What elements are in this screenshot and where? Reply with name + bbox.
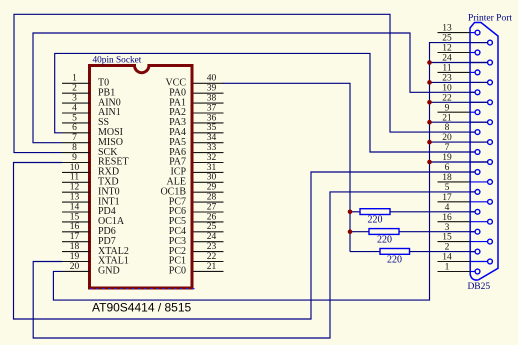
resistor R3 220 ohm (to J1 pin 2) [350, 249, 475, 266]
junction dot: GND bus / J1 pin 23 [427, 80, 432, 85]
svg-text:9: 9 [72, 153, 77, 163]
U1 pin 1 (T0) stub + number + name [62, 74, 109, 89]
IC U1 AT90S4414/8515 body (40-pin DIP outline with notch) [90, 66, 193, 289]
svg-text:29: 29 [207, 183, 217, 193]
U1 pin 12 (INT0) stub + number + name [62, 183, 120, 198]
svg-text:36: 36 [207, 113, 217, 123]
svg-text:13: 13 [70, 193, 80, 203]
U1 pin 20 (GND) stub + number + name [62, 262, 120, 277]
svg-text:12: 12 [442, 44, 452, 54]
svg-text:22: 22 [207, 252, 217, 262]
svg-text:9: 9 [445, 103, 450, 113]
svg-text:40pin Socket: 40pin Socket [93, 55, 142, 65]
U1 pin 7 (MISO) stub + number + name [62, 133, 123, 148]
U1 pin 29 (OC1B) stub + number + name [160, 183, 223, 198]
svg-text:39: 39 [207, 84, 217, 94]
J1 pin 20 (circle, lead, number) [442, 133, 492, 144]
resistor R2 220 ohm (to J1 pin 3) [350, 229, 475, 246]
svg-text:38: 38 [207, 94, 217, 104]
U1 pin 2 (PB1) stub + number + name [62, 84, 115, 99]
U1 pin 33 (PA6) stub + number + name [169, 143, 223, 158]
svg-text:18: 18 [70, 242, 80, 252]
J1 pin 3 (circle, lead, number) [445, 223, 480, 234]
J1 pin 14 (circle, lead, number, stub) [438, 253, 493, 264]
U1 pin 8 (SCK) stub + number + name [62, 143, 118, 158]
U1 pin 16 (PD6) stub + number + name [62, 222, 116, 237]
J1 pin 25 (circle, lead, number) [442, 34, 492, 45]
wire net XTAL1: U1 pin19 -> bottom rail -> J1 pin5 [33, 192, 475, 338]
U1 pin 5 (SS) stub + number + name [62, 113, 109, 128]
dashed blue highlight on chip bottom edge [90, 288, 196, 290]
svg-text:40: 40 [207, 74, 217, 84]
svg-text:14: 14 [70, 202, 80, 212]
svg-text:15: 15 [70, 212, 80, 222]
J1 pin 4 (circle, lead, number) [445, 203, 480, 214]
svg-text:20: 20 [70, 262, 80, 272]
resistor R1 220 ohm (to J1 pin 4) [350, 209, 475, 226]
wire GND bus branch to J1 pin 20 [430, 141, 488, 143]
svg-text:14: 14 [442, 253, 452, 263]
U1 pin 31 (ICP) stub + number + name [170, 163, 223, 178]
U1 pin 24 (PC3) stub + number + name [169, 232, 224, 247]
U1 pin 25 (PC4) stub + number + name [169, 222, 224, 237]
U1 pin 39 (PA0) stub + number + name [169, 84, 223, 99]
wire GND bus branch to J1 pin 22 [430, 101, 488, 103]
U1 pin 17 (PD7) stub + number + name [62, 232, 116, 247]
U1 pin 14 (PD4) stub + number + name [62, 202, 116, 217]
U1 pin 13 (INT1) stub + number + name [62, 193, 120, 208]
J1 pin 13 (circle, lead, number, stub) [438, 24, 480, 35]
U1 pin 10 (RXD) stub + number + name [62, 163, 119, 178]
svg-text:27: 27 [207, 202, 217, 212]
junction dot: GND bus / J1 pin 19 [427, 160, 432, 165]
svg-text:33: 33 [207, 143, 217, 153]
U1 pin 19 (XTAL1) stub + number + name [62, 252, 129, 267]
U1 pin 34 (PA5) stub + number + name [169, 133, 223, 148]
junction dot: GND bus / J1 pin 22 [427, 100, 432, 105]
svg-text:GND: GND [98, 266, 120, 277]
J1 pin 22 (circle, lead, number) [442, 93, 492, 104]
J1 pin 15 (circle, lead, number, stub) [438, 233, 493, 244]
svg-text:37: 37 [207, 103, 217, 113]
U1 pin 9 (RESET) stub + number + name [62, 153, 129, 168]
U1 pin 37 (PA2) stub + number + name [169, 103, 223, 118]
svg-text:26: 26 [207, 212, 217, 222]
svg-text:17: 17 [442, 193, 452, 203]
svg-text:10: 10 [70, 163, 80, 173]
svg-text:19: 19 [70, 252, 80, 262]
svg-text:1: 1 [72, 74, 77, 84]
wire GND bus branch to J1 pin 19 [430, 161, 488, 163]
svg-text:30: 30 [207, 173, 217, 183]
U1 pin 35 (PA4) stub + number + name [169, 123, 223, 138]
wire GND bus branch to J1 pin 24 [430, 62, 488, 64]
J1 pin 8 (circle, lead, number) [445, 123, 480, 134]
wire net RESET: U1 pin9 -> bottom rail -> J1 pin6 [14, 163, 476, 320]
svg-text:15: 15 [442, 233, 452, 243]
svg-text:3: 3 [72, 94, 77, 104]
svg-text:220: 220 [368, 215, 383, 226]
svg-text:2: 2 [72, 84, 77, 94]
U1 pin 3 (AIN0) stub + number + name [62, 94, 121, 109]
svg-text:8: 8 [72, 143, 77, 153]
svg-text:32: 32 [207, 153, 217, 163]
U1 pin 11 (TXD) stub + number + name [62, 173, 119, 188]
svg-text:4: 4 [72, 103, 77, 113]
svg-text:DB25: DB25 [467, 282, 490, 292]
U1 pin 23 (PC2) stub + number + name [169, 242, 224, 257]
U1 pin 6 (MOSI) stub + number + name [62, 123, 123, 138]
svg-text:12: 12 [70, 183, 80, 193]
svg-text:Printer Port: Printer Port [468, 14, 512, 24]
wire GND bus branch to J1 pin 23 [430, 81, 488, 83]
svg-text:13: 13 [442, 24, 452, 34]
junction dot: VCC bus / R2 left lead [348, 229, 353, 234]
svg-text:16: 16 [70, 222, 80, 232]
svg-text:5: 5 [72, 113, 77, 123]
J1 pin 2 (circle, lead, number) [445, 243, 480, 254]
wire GND bus branch to J1 pin 21 [430, 121, 488, 123]
svg-text:21: 21 [207, 262, 217, 272]
J1 pin 1 (circle, lead, number, stub) [438, 263, 480, 274]
svg-text:28: 28 [207, 193, 217, 203]
svg-text:17: 17 [70, 232, 80, 242]
J1 pin 11 (circle, lead, number, stub) [438, 64, 480, 75]
J1 pin 19 (circle, lead, number) [442, 153, 492, 164]
J1 pin 18 (circle, lead, number, stub) [438, 173, 493, 184]
J1 pin 9 (circle, lead, number, stub) [438, 103, 480, 114]
J1 pin 5 (circle, lead, number) [445, 183, 480, 194]
svg-text:11: 11 [442, 64, 451, 74]
wire net MISO: U1 pin7 -> top rail -> J1 pin10 [33, 33, 475, 143]
U1 pin 36 (PA3) stub + number + name [169, 113, 223, 128]
junction dot: GND bus / J1 pin 24 [427, 60, 432, 65]
junction dot: GND bus / J1 pin 21 [427, 120, 432, 125]
U1 pin 26 (PC5) stub + number + name [169, 212, 224, 227]
U1 pin 38 (PA1) stub + number + name [169, 94, 223, 109]
U1 pin 4 (AIN1) stub + number + name [62, 103, 121, 118]
U1 pin 18 (XTAL2) stub + number + name [62, 242, 129, 257]
wire net SCK: U1 pin8 -> top rail -> J1 pin8 [14, 14, 475, 152]
svg-text:220: 220 [387, 255, 402, 266]
J1 pin 21 (circle, lead, number) [442, 113, 492, 124]
svg-text:34: 34 [207, 133, 217, 143]
svg-text:220: 220 [377, 235, 392, 246]
svg-text:7: 7 [72, 133, 77, 143]
J1 pin 17 (circle, lead, number, stub) [438, 193, 493, 204]
U1 pin 21 (PC0) stub + number + name [169, 262, 224, 277]
svg-text:1: 1 [445, 263, 450, 273]
U1 pin 27 (PC6) stub + number + name [169, 202, 224, 217]
J1 pin 12 (circle, lead, number, stub) [438, 44, 480, 55]
J1 pin 10 (circle, lead, number) [442, 83, 480, 94]
svg-text:18: 18 [442, 173, 452, 183]
svg-text:23: 23 [207, 242, 217, 252]
svg-text:35: 35 [207, 123, 217, 133]
J1 pin 24 (circle, lead, number) [442, 54, 492, 65]
U1 pin 28 (PC7) stub + number + name [169, 193, 224, 208]
svg-text:11: 11 [70, 173, 79, 183]
junction dot: GND bus / J1 pin 20 [427, 140, 432, 145]
svg-text:AT90S4414 / 8515: AT90S4414 / 8515 [92, 301, 192, 315]
J1 pin 7 (circle, lead, number) [445, 143, 480, 154]
svg-text:PC0: PC0 [169, 266, 186, 277]
U1 pin 40 (VCC) stub + number + name [165, 74, 223, 89]
junction dot: VCC bus / R1 left lead [348, 210, 353, 215]
wire net GND: U1 pin20 -> bottom rail -> ground bus up right side [53, 43, 487, 301]
J1 pin 6 (circle, lead, number) [445, 163, 480, 174]
U1 pin 22 (PC1) stub + number + name [169, 252, 224, 267]
wire net VCC: U1 pin40 -> right, down to resistor bus [223, 83, 350, 251]
connector J1 DB25 outline [470, 23, 498, 281]
U1 pin 15 (OC1A) stub + number + name [62, 212, 125, 227]
svg-text:25: 25 [207, 222, 217, 232]
svg-text:16: 16 [442, 213, 452, 223]
J1 pin 23 (circle, lead, number) [442, 74, 492, 85]
svg-text:24: 24 [207, 232, 217, 242]
svg-text:6: 6 [72, 123, 77, 133]
svg-text:31: 31 [207, 163, 217, 173]
J1 pin 16 (circle, lead, number, stub) [438, 213, 493, 224]
U1 pin 30 (ALE) stub + number + name [167, 173, 224, 188]
U1 pin 32 (PA7) stub + number + name [169, 153, 223, 168]
wire net MOSI: U1 pin6 -> top rail -> J1 pin7 [55, 53, 475, 152]
